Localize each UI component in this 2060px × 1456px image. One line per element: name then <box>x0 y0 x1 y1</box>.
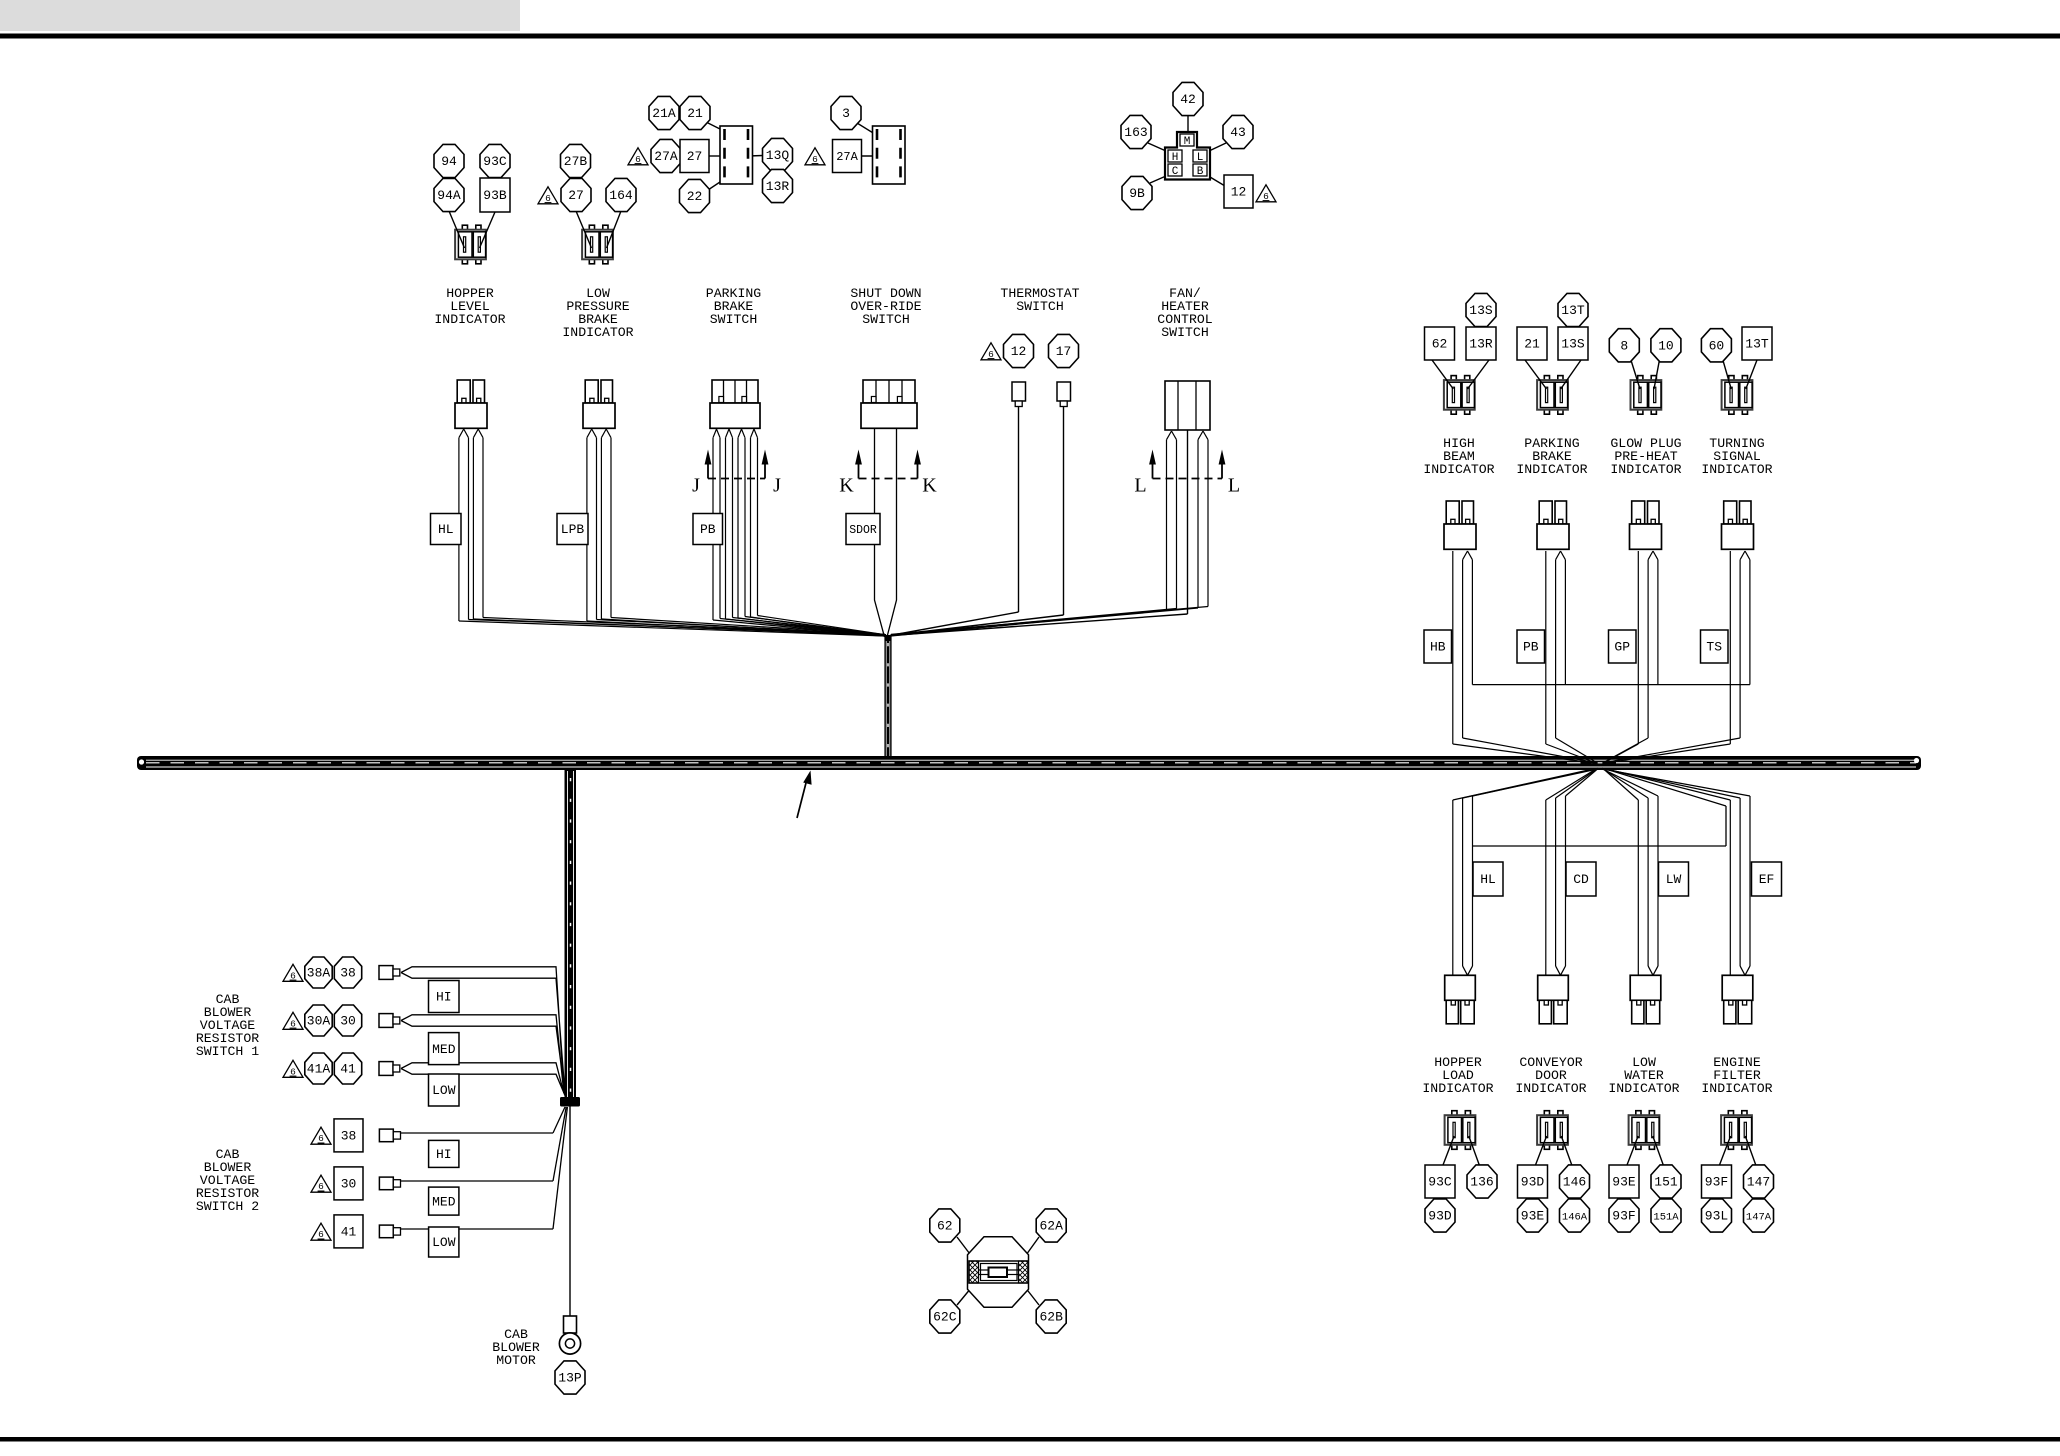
svg-text:L: L <box>1228 475 1240 497</box>
svg-text:PB: PB <box>1523 640 1539 655</box>
svg-text:K: K <box>839 475 854 497</box>
svg-text:164: 164 <box>609 188 633 203</box>
svg-text:21A: 21A <box>652 106 676 121</box>
svg-text:13R: 13R <box>1469 337 1493 352</box>
svg-text:CD: CD <box>1573 872 1589 887</box>
svg-text:21: 21 <box>1524 337 1540 352</box>
svg-text:HI: HI <box>436 1147 452 1162</box>
svg-text:LOW: LOW <box>432 1083 456 1098</box>
svg-text:13P: 13P <box>558 1371 582 1386</box>
svg-text:43: 43 <box>1230 125 1246 140</box>
svg-text:MED: MED <box>432 1042 456 1057</box>
svg-text:147A: 147A <box>1746 1212 1772 1224</box>
svg-text:INDICATOR: INDICATOR <box>562 325 633 340</box>
svg-text:27A: 27A <box>654 149 678 164</box>
svg-text:30A: 30A <box>307 1014 331 1029</box>
svg-text:SWITCH 1: SWITCH 1 <box>196 1044 259 1059</box>
svg-text:30: 30 <box>340 1014 356 1029</box>
svg-text:62C: 62C <box>933 1310 957 1325</box>
svg-text:SWITCH: SWITCH <box>1016 299 1063 314</box>
svg-text:30: 30 <box>341 1177 357 1192</box>
svg-text:41A: 41A <box>307 1062 331 1077</box>
svg-text:93F: 93F <box>1705 1175 1728 1190</box>
svg-text:62B: 62B <box>1039 1310 1063 1325</box>
svg-text:93D: 93D <box>1428 1209 1452 1224</box>
svg-text:K: K <box>922 475 937 497</box>
svg-text:INDICATOR: INDICATOR <box>1701 462 1772 477</box>
svg-text:H: H <box>1172 152 1179 164</box>
svg-text:41: 41 <box>341 1225 357 1240</box>
svg-text:LW: LW <box>1666 872 1682 887</box>
svg-text:HL: HL <box>438 522 454 537</box>
svg-text:93C: 93C <box>1428 1175 1452 1190</box>
svg-text:8: 8 <box>1620 339 1628 354</box>
svg-text:SWITCH: SWITCH <box>1161 325 1208 340</box>
svg-text:B: B <box>1197 166 1204 178</box>
svg-text:27: 27 <box>568 188 584 203</box>
svg-text:151: 151 <box>1654 1175 1678 1190</box>
svg-text:13S: 13S <box>1561 337 1585 352</box>
svg-text:147: 147 <box>1747 1175 1770 1190</box>
svg-text:163: 163 <box>1124 125 1147 140</box>
svg-text:38: 38 <box>341 1129 357 1144</box>
svg-text:94: 94 <box>441 154 457 169</box>
svg-text:27B: 27B <box>564 154 588 169</box>
svg-text:9B: 9B <box>1129 186 1145 201</box>
svg-text:SWITCH: SWITCH <box>862 312 909 327</box>
svg-text:42: 42 <box>1180 92 1196 107</box>
svg-text:151A: 151A <box>1653 1212 1679 1224</box>
svg-text:J: J <box>773 475 781 497</box>
svg-text:INDICATOR: INDICATOR <box>1423 462 1494 477</box>
svg-text:EF: EF <box>1759 872 1775 887</box>
svg-text:INDICATOR: INDICATOR <box>434 312 505 327</box>
svg-text:93L: 93L <box>1705 1209 1728 1224</box>
svg-text:L: L <box>1134 475 1146 497</box>
svg-text:12: 12 <box>1231 185 1247 200</box>
svg-text:93D: 93D <box>1521 1175 1545 1190</box>
svg-text:13S: 13S <box>1469 303 1493 318</box>
svg-text:SWITCH 2: SWITCH 2 <box>196 1199 259 1214</box>
svg-text:38: 38 <box>340 966 356 981</box>
svg-text:12: 12 <box>1011 344 1027 359</box>
svg-text:SDOR: SDOR <box>849 524 877 537</box>
svg-text:10: 10 <box>1658 339 1674 354</box>
svg-text:93E: 93E <box>1612 1175 1636 1190</box>
svg-text:13Q: 13Q <box>766 148 790 163</box>
svg-text:MED: MED <box>432 1194 456 1209</box>
svg-text:INDICATOR: INDICATOR <box>1608 1081 1679 1096</box>
svg-text:C: C <box>1172 166 1179 178</box>
svg-text:TS: TS <box>1706 640 1722 655</box>
svg-text:3: 3 <box>842 106 850 121</box>
svg-text:93C: 93C <box>483 154 507 169</box>
svg-text:38A: 38A <box>307 966 331 981</box>
svg-text:INDICATOR: INDICATOR <box>1515 1081 1586 1096</box>
svg-text:INDICATOR: INDICATOR <box>1422 1081 1493 1096</box>
svg-text:INDICATOR: INDICATOR <box>1701 1081 1772 1096</box>
svg-text:17: 17 <box>1056 344 1072 359</box>
svg-text:27: 27 <box>687 149 703 164</box>
svg-text:GP: GP <box>1614 640 1630 655</box>
svg-text:MOTOR: MOTOR <box>496 1353 536 1368</box>
svg-text:SWITCH: SWITCH <box>710 312 757 327</box>
svg-text:J: J <box>692 475 700 497</box>
svg-text:93E: 93E <box>1521 1209 1545 1224</box>
svg-text:21: 21 <box>687 106 703 121</box>
svg-text:136: 136 <box>1470 1175 1493 1190</box>
svg-text:22: 22 <box>687 189 703 204</box>
svg-text:M: M <box>1184 136 1191 148</box>
svg-text:PB: PB <box>700 522 716 537</box>
svg-text:HL: HL <box>1480 872 1496 887</box>
svg-text:146A: 146A <box>1562 1212 1588 1224</box>
svg-text:62: 62 <box>937 1219 953 1234</box>
svg-text:93B: 93B <box>483 188 507 203</box>
svg-text:41: 41 <box>340 1062 356 1077</box>
svg-text:93F: 93F <box>1612 1209 1635 1224</box>
svg-text:13T: 13T <box>1561 303 1585 318</box>
svg-text:13T: 13T <box>1745 337 1769 352</box>
svg-text:60: 60 <box>1709 339 1725 354</box>
svg-text:146: 146 <box>1563 1175 1586 1190</box>
svg-text:62: 62 <box>1432 337 1448 352</box>
svg-text:INDICATOR: INDICATOR <box>1516 462 1587 477</box>
svg-text:HB: HB <box>1430 640 1446 655</box>
svg-text:INDICATOR: INDICATOR <box>1610 462 1681 477</box>
svg-text:13R: 13R <box>766 179 790 194</box>
svg-text:HI: HI <box>436 990 452 1005</box>
svg-text:62A: 62A <box>1039 1219 1063 1234</box>
svg-text:94A: 94A <box>437 188 461 203</box>
svg-text:LPB: LPB <box>561 522 585 537</box>
svg-text:27A: 27A <box>836 150 858 164</box>
svg-text:LOW: LOW <box>432 1235 456 1250</box>
svg-text:L: L <box>1197 152 1204 164</box>
